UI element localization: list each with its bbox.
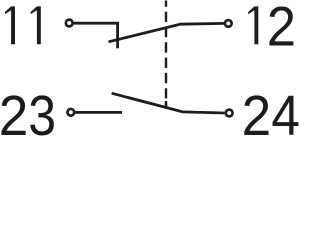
svg-text:3: 3 xyxy=(28,85,56,136)
svg-text:2: 2 xyxy=(242,84,272,136)
mechanical link (dashed) xyxy=(165,1,167,108)
label 11 xyxy=(5,6,41,44)
terminal circle 24 xyxy=(226,110,233,117)
wire: link stub joining last dash to NO lever xyxy=(165,101,167,107)
label 24 xyxy=(242,84,300,148)
label 12 xyxy=(248,0,296,58)
terminal circle 11 xyxy=(66,20,73,27)
wire: NC fixed contact with stop tick xyxy=(73,23,118,48)
svg-text:2: 2 xyxy=(267,0,296,58)
svg-text:4: 4 xyxy=(271,85,300,136)
wire: NC movable lever to terminal 12 xyxy=(109,23,225,41)
terminal circle 12 xyxy=(225,20,232,27)
wire: NO fixed contact xyxy=(75,111,122,114)
label 23 xyxy=(0,84,56,148)
wire: NO movable lever to terminal 24 xyxy=(112,93,225,113)
svg-text:2: 2 xyxy=(0,84,28,136)
terminal circle 23 xyxy=(67,109,74,116)
